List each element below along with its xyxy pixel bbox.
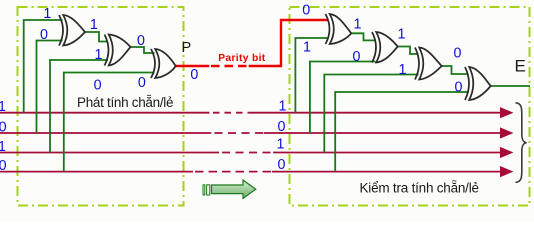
- flow arrow icon bar 1: [203, 185, 205, 195]
- svg-text:0: 0: [138, 75, 146, 91]
- wire tap D4 to U3 input B: [64, 73, 155, 172]
- svg-text:0: 0: [40, 27, 48, 43]
- wire U6 output to U7 input A: [440, 66, 469, 74]
- xor gate U2: [105, 35, 131, 66]
- svg-text:1: 1: [398, 27, 406, 43]
- svg-text:1: 1: [303, 40, 311, 56]
- svg-text:0: 0: [0, 158, 7, 174]
- svg-text:Kiểm tra tính chẵn/lẻ: Kiểm tra tính chẵn/lẻ: [360, 181, 480, 196]
- svg-text:1: 1: [354, 16, 362, 32]
- wire U1 output to U2 input A: [83, 32, 108, 42]
- xor gate U3: [151, 49, 176, 78]
- svg-text:1: 1: [399, 62, 407, 78]
- xor gate U5: [372, 32, 398, 63]
- data line D1 arrowhead: [500, 107, 514, 118]
- svg-text:0: 0: [190, 67, 198, 83]
- svg-text:1: 1: [90, 17, 98, 33]
- svg-text:1: 1: [95, 47, 103, 63]
- output net E wire from U7: [489, 85, 531, 87]
- wire tap D3 to U6 input B: [324, 75, 418, 153]
- curly brace grouping outputs: [516, 103, 527, 183]
- wire tap D1 to U4 input B: [295, 38, 329, 113]
- checker box border (Kiem tra tinh chan/le): [290, 7, 530, 206]
- svg-text:1: 1: [0, 139, 6, 155]
- parity net P red wire dashed middle: [211, 65, 249, 67]
- flow arrow icon bar 2: [207, 185, 210, 195]
- wire tap D2 to U1 input B: [37, 41, 63, 134]
- data line D3 solid left segment: [0, 152, 219, 154]
- svg-text:1: 1: [279, 99, 287, 115]
- wire U4 output to U5 input A: [349, 33, 376, 40]
- svg-text:0: 0: [0, 119, 7, 135]
- data line D1 dashed middle segment: [213, 112, 248, 114]
- wire tap D4 to U7 input B: [335, 92, 468, 172]
- svg-text:Phát tính chẵn/lẻ: Phát tính chẵn/lẻ: [77, 95, 174, 110]
- data line D2 right segment: [264, 132, 501, 134]
- svg-text:0: 0: [137, 33, 145, 49]
- wire U2 output to U3 input A: [129, 47, 155, 53]
- svg-text:0: 0: [278, 119, 286, 135]
- xor gate U4: [326, 14, 352, 44]
- svg-text:P: P: [182, 40, 192, 56]
- svg-text:Parity bit: Parity bit: [218, 53, 266, 64]
- svg-text:0: 0: [353, 49, 361, 65]
- data line D4 solid left segment: [0, 171, 193, 173]
- data line D2 dashed middle segment: [215, 132, 264, 134]
- wire tap D2 to U5 input B: [310, 62, 376, 134]
- data line D4 right segment: [272, 171, 501, 173]
- svg-text:0: 0: [302, 2, 310, 18]
- wire U5 output to U6 input A: [396, 47, 419, 55]
- data line D2 arrowhead: [500, 127, 514, 138]
- svg-text:1: 1: [277, 137, 285, 153]
- parity net P red wire to U4 input A: [249, 20, 328, 66]
- xor gate U7: [465, 67, 491, 100]
- flow arrow icon body: [212, 180, 256, 198]
- data line D4 dashed middle segment: [195, 171, 272, 173]
- generator box border (Phat tinh chan/le): [18, 7, 184, 206]
- data line D1 solid left segment: [0, 112, 209, 114]
- data line D4 arrowhead: [500, 166, 514, 177]
- svg-text:0: 0: [278, 157, 286, 173]
- xor gate U6: [415, 48, 442, 80]
- svg-text:0: 0: [94, 77, 102, 93]
- data line D2 solid left segment: [0, 132, 211, 134]
- wire tap D3 to U2 input B: [50, 60, 108, 153]
- data line D3 arrowhead: [500, 147, 514, 158]
- wire tap D1 to U1 input A: [24, 20, 63, 113]
- parity net P red wire solid from U3 output: [174, 65, 210, 67]
- svg-text:0: 0: [454, 46, 462, 62]
- svg-text:1: 1: [0, 99, 6, 115]
- data line D3 right segment: [273, 152, 501, 154]
- svg-text:1: 1: [43, 6, 51, 22]
- data line D3 dashed middle segment: [222, 152, 273, 154]
- xor gate U1: [59, 15, 85, 46]
- svg-text:E: E: [515, 56, 526, 75]
- data line D1 right segment: [248, 112, 501, 114]
- svg-text:0: 0: [455, 80, 463, 96]
